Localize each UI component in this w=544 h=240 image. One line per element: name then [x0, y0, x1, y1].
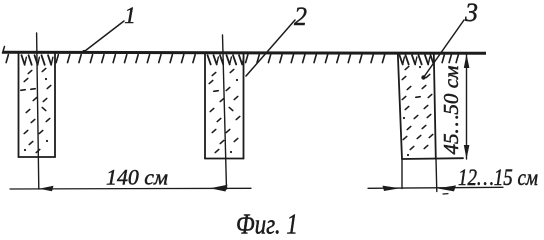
dimension 12…15 см : left arrow	[383, 186, 401, 191]
dimension 45…50 см : bottom arrow	[464, 145, 470, 159]
svg-text:45…50 см: 45…50 см	[439, 66, 463, 155]
svg-text:Фиг. 1: Фиг. 1	[236, 210, 298, 239]
svg-text:2: 2	[294, 2, 307, 31]
leader line 3	[421, 20, 464, 80]
dimension 12…15 см : line	[368, 187, 503, 188]
trench 1 centerline (stake)	[37, 33, 39, 189]
trench 2 top v-marks	[208, 55, 244, 64]
dimension 140 см : line	[10, 187, 251, 190]
trench 2 centerline (stake)	[223, 35, 227, 189]
trench 3 top v-marks	[400, 55, 434, 64]
trench 2 fill dashes	[209, 69, 240, 153]
surface hatch ticks	[6, 55, 458, 63]
trench 2 (pit outline)	[205, 53, 244, 159]
trench 1 top v-marks	[22, 55, 53, 65]
ink speck below right dimension line	[443, 193, 448, 195]
dimension 45…50 см : top arrow	[464, 54, 470, 68]
dimension 140 см : left arrow	[39, 186, 54, 192]
svg-text:1: 1	[124, 3, 136, 28]
leader line 1	[82, 21, 124, 53]
dimension 45…50 см : line	[466, 54, 468, 159]
dimension 140 см : right arrow	[210, 185, 228, 192]
svg-text:3: 3	[464, 0, 478, 27]
svg-text:140 см: 140 см	[106, 165, 168, 190]
dimension 12…15 см : extension lines	[402, 159, 437, 192]
ground surface line	[3, 47, 487, 54]
trench 3 (pit outline)	[398, 53, 463, 159]
trench 3 fill dashes	[402, 66, 433, 156]
trench 1 fill dashes	[21, 68, 51, 152]
svg-text:12…15 см: 12…15 см	[458, 165, 538, 190]
trench 1 (pit outline)	[19, 53, 56, 157]
dimension 12…15 см : right arrow	[437, 185, 456, 191]
leader line 2	[246, 20, 295, 76]
